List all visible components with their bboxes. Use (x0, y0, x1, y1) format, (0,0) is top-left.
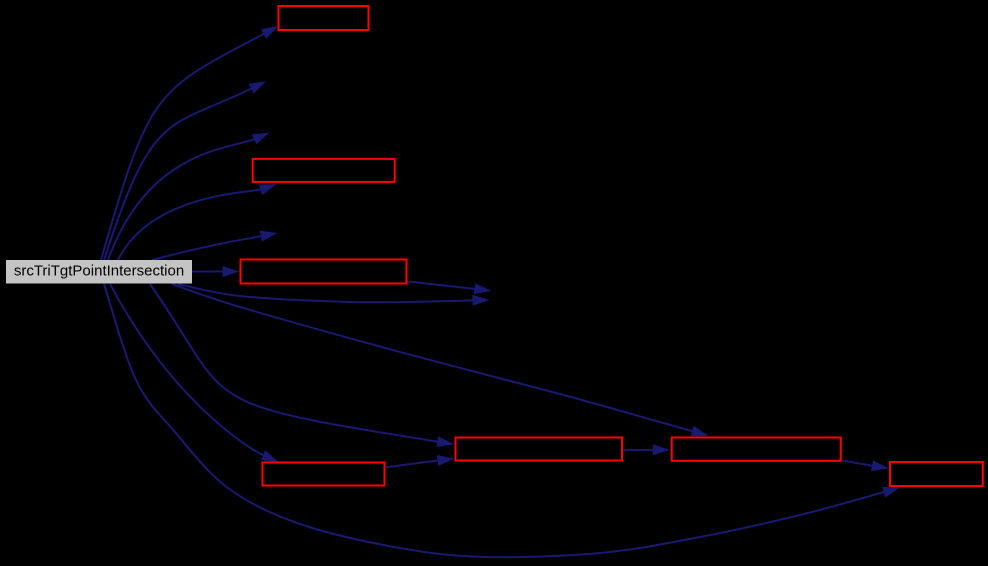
edge source to node2 (bottom entry) (118, 184, 277, 260)
edge source to hidden node D (178, 284, 490, 306)
node7 box (890, 462, 983, 486)
source node srcTriTgtPointIntersection (6, 260, 192, 284)
node2 box (253, 159, 395, 182)
edge node6 to node7 (842, 460, 889, 471)
edge source to hidden node C (152, 231, 278, 260)
edge source to hidden node B (108, 133, 270, 261)
edge node4 to node5 (386, 455, 455, 467)
edge source to node1 (top box) (101, 26, 279, 260)
node1 box (top) (279, 6, 369, 30)
edge source to node4 (110, 284, 279, 462)
node6 box (672, 438, 841, 461)
node4 box (263, 463, 385, 486)
edge source to node6 (long diagonal) (172, 284, 709, 436)
edge source to hidden node A (104, 81, 266, 260)
edge source to node5 (150, 284, 454, 447)
svg-text:srcTriTgtPointIntersection: srcTriTgtPointIntersection (14, 263, 184, 280)
edge node3 to hidden node D (408, 281, 492, 294)
node3 box (241, 260, 407, 284)
edge source to node3 (straight) (192, 266, 240, 277)
edge source to node7 (big bottom sweep) (104, 284, 900, 557)
edge node5 to node6 (624, 444, 670, 455)
node5 box (456, 438, 623, 461)
